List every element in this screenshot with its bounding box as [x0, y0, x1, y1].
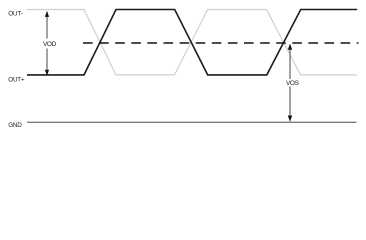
VOD dimension arrow (double-headed, between OUT- and OUT+ levels) — [45, 11, 49, 76]
label VOS — [286, 80, 300, 87]
wire black trace (OUT+ signal waveform) — [27, 10, 357, 75]
label OUT+ — [8, 76, 25, 83]
label GND — [8, 122, 22, 129]
wire gray trace (OUT- signal waveform) — [27, 10, 358, 75]
svg-text:OUT-: OUT- — [8, 10, 22, 17]
svg-text:VOS: VOS — [286, 80, 300, 87]
svg-text:GND: GND — [8, 122, 22, 129]
wire dashed common-mode (VOS) level line — [83, 42, 359, 44]
svg-text:VOD: VOD — [43, 41, 57, 48]
label OUT- — [8, 10, 22, 17]
wire GND level line — [27, 121, 357, 123]
VOS dimension arrow (double-headed, dashed line to GND) — [288, 44, 292, 122]
svg-text:OUT+: OUT+ — [8, 76, 25, 83]
label VOD — [43, 41, 57, 48]
